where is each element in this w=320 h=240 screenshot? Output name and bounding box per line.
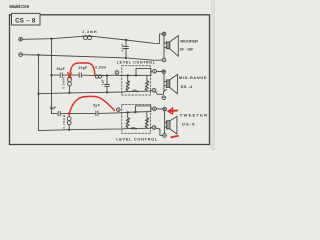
svg-text:30 - 16F: 30 - 16F [180, 47, 195, 51]
box1 wiper tap wire [136, 69, 151, 76]
level control 1 terminal 1 [115, 71, 119, 75]
resistor VR1b [146, 75, 148, 81]
woofer lead vertical [163, 36, 165, 58]
wire term2 to mid + [157, 70, 162, 72]
inductor L4 0.76mH shunt [68, 114, 70, 117]
svg-text:0.5mH: 0.5mH [62, 78, 66, 89]
red plus-arrow at tweeter [168, 110, 177, 113]
wire: mid branch [52, 74, 60, 76]
svg-text:LEVEL CONTROL: LEVEL CONTROL [117, 61, 156, 65]
capacitor C1 4.7uF shunt [125, 40, 127, 46]
woofer + terminal [162, 32, 166, 36]
svg-text:1µF: 1µF [100, 79, 104, 85]
arrow VR1a [126, 81, 130, 90]
node box2 wiper [135, 111, 137, 113]
arrow VR2a [126, 118, 130, 127]
wire: bottom (-) rail from input to woofer [23, 55, 163, 61]
svg-text:DS-5: DS-5 [182, 121, 195, 126]
level control 1 dashed box [122, 66, 151, 95]
speaker SP2 mid cone [170, 74, 178, 93]
node mid-coil tap [69, 74, 71, 76]
node rail-coil [69, 92, 70, 93]
arrow VR1b [145, 81, 149, 90]
box1 through wire [113, 71, 153, 75]
wire: top (+) rail to woofer [23, 36, 83, 39]
tweeter - terminal [163, 134, 167, 138]
node rail-cap [106, 92, 107, 93]
svg-text:3µF: 3µF [50, 106, 56, 110]
title box CS-8 [12, 13, 41, 25]
tweeter + terminal [163, 107, 167, 111]
node woofer-shunt [125, 39, 127, 41]
mid lead vertical [163, 74, 165, 92]
woofer stub top [164, 42, 166, 44]
wire to level control 1 [103, 74, 113, 76]
node rail2-coil [69, 129, 70, 130]
tweeter lead vertical [164, 111, 166, 134]
mid - terminal [162, 96, 166, 100]
level control 1 terminal 2 [153, 69, 157, 73]
svg-text:20µF: 20µF [79, 66, 88, 70]
arrow VR2b [145, 118, 149, 127]
box2 wiper tap wire [136, 106, 151, 112]
svg-text:LEVEL CONTROL: LEVEL CONTROL [116, 136, 158, 141]
box2 through wire [113, 109, 153, 113]
red X mark at mid tap [68, 73, 72, 79]
red jumper arc over 20uF [70, 63, 95, 75]
node rail-left tap [38, 93, 40, 95]
wire [70, 112, 95, 114]
node mid-shunt tap [106, 75, 108, 77]
wire term2 to tweeter + [156, 108, 163, 110]
capacitor C3 20uF [78, 73, 80, 78]
level control 2 dashed box [122, 104, 151, 133]
level control 2 terminal 3 [152, 126, 156, 130]
speaker SP3 tweeter driver [167, 121, 170, 129]
level control 2 terminal 1 [117, 108, 121, 112]
mid stub top [164, 81, 166, 83]
mid + terminal [162, 70, 166, 74]
red pen annotations [68, 63, 178, 137]
capacitor C4 shunt mid [106, 76, 108, 85]
sheet frame [10, 15, 210, 145]
wire: tweeter branch [52, 113, 58, 115]
wire: tweeter return rail [39, 128, 153, 131]
node VR1a top [127, 75, 129, 77]
tweeter stub top [165, 122, 167, 124]
svg-text:Model CS-8: Model CS-8 [9, 4, 29, 9]
resistor VR1a [127, 75, 129, 80]
svg-text:2.3mH: 2.3mH [82, 30, 97, 34]
level control 1 terminal 3 [152, 88, 156, 92]
wire [61, 113, 68, 115]
svg-text:WOOFER: WOOFER [180, 38, 198, 43]
red dot at tweeter tap [68, 112, 71, 115]
wire to level control 2 [99, 112, 113, 114]
svg-text:DS -4: DS -4 [181, 84, 193, 89]
wire [93, 34, 163, 44]
wire term3 to tweeter - [156, 128, 163, 135]
node VR2a top [127, 112, 129, 114]
node mid-branch tap [51, 74, 53, 76]
svg-text:0.1mH: 0.1mH [95, 66, 106, 70]
tweeter stub bottom [165, 126, 167, 128]
inductor L1 2.3mH [83, 35, 87, 39]
red minus at tweeter [171, 136, 178, 137]
resistor VR2b [146, 112, 148, 118]
woofer stub bottom [164, 47, 166, 49]
svg-text:CS – 8: CS – 8 [15, 17, 36, 24]
paper background [0, 0, 223, 150]
capacitor C5 3uF [57, 111, 59, 116]
wire [70, 74, 78, 76]
input terminal + [19, 37, 23, 41]
input terminal - [19, 53, 23, 57]
inductor L3 0.5mH shunt [69, 75, 71, 78]
svg-text:MID-RANGE: MID-RANGE [179, 76, 207, 80]
red curve bypass 5uF [69, 96, 114, 113]
speaker SP2 mid driver [166, 80, 169, 88]
edge shading right [211, 0, 215, 150]
svg-text:10µF: 10µF [56, 67, 65, 71]
speaker SP1 woofer driver [166, 42, 169, 49]
svg-text:0.76mH: 0.76mH [62, 115, 66, 129]
svg-text:4.7µF: 4.7µF [120, 43, 124, 51]
node tweeter-coil tap [68, 113, 70, 115]
resistor VR2a [127, 112, 129, 117]
inductor L2 0.1mH [95, 75, 98, 78]
svg-text:5µF: 5µF [93, 103, 100, 107]
node minus-tap [38, 54, 40, 56]
wire [63, 74, 69, 76]
mid stub bottom [164, 85, 166, 87]
node return-shunt [125, 57, 127, 59]
wire [82, 74, 95, 76]
wire: mid return rail [39, 90, 153, 94]
speaker SP3 tweeter cone [170, 116, 177, 134]
speaker SP1 woofer cone [170, 36, 179, 57]
wire: mid feed vertical [51, 39, 53, 114]
woofer - terminal [162, 58, 166, 62]
wire: left return vertical [38, 55, 40, 131]
capacitor C6 5uF [95, 111, 97, 116]
wire term3 to mid - [156, 89, 167, 94]
capacitor C2 10uF [59, 73, 61, 78]
level control 2 terminal 2 [153, 107, 157, 111]
node top-tap [51, 38, 53, 40]
node box1 wiper [135, 75, 137, 77]
